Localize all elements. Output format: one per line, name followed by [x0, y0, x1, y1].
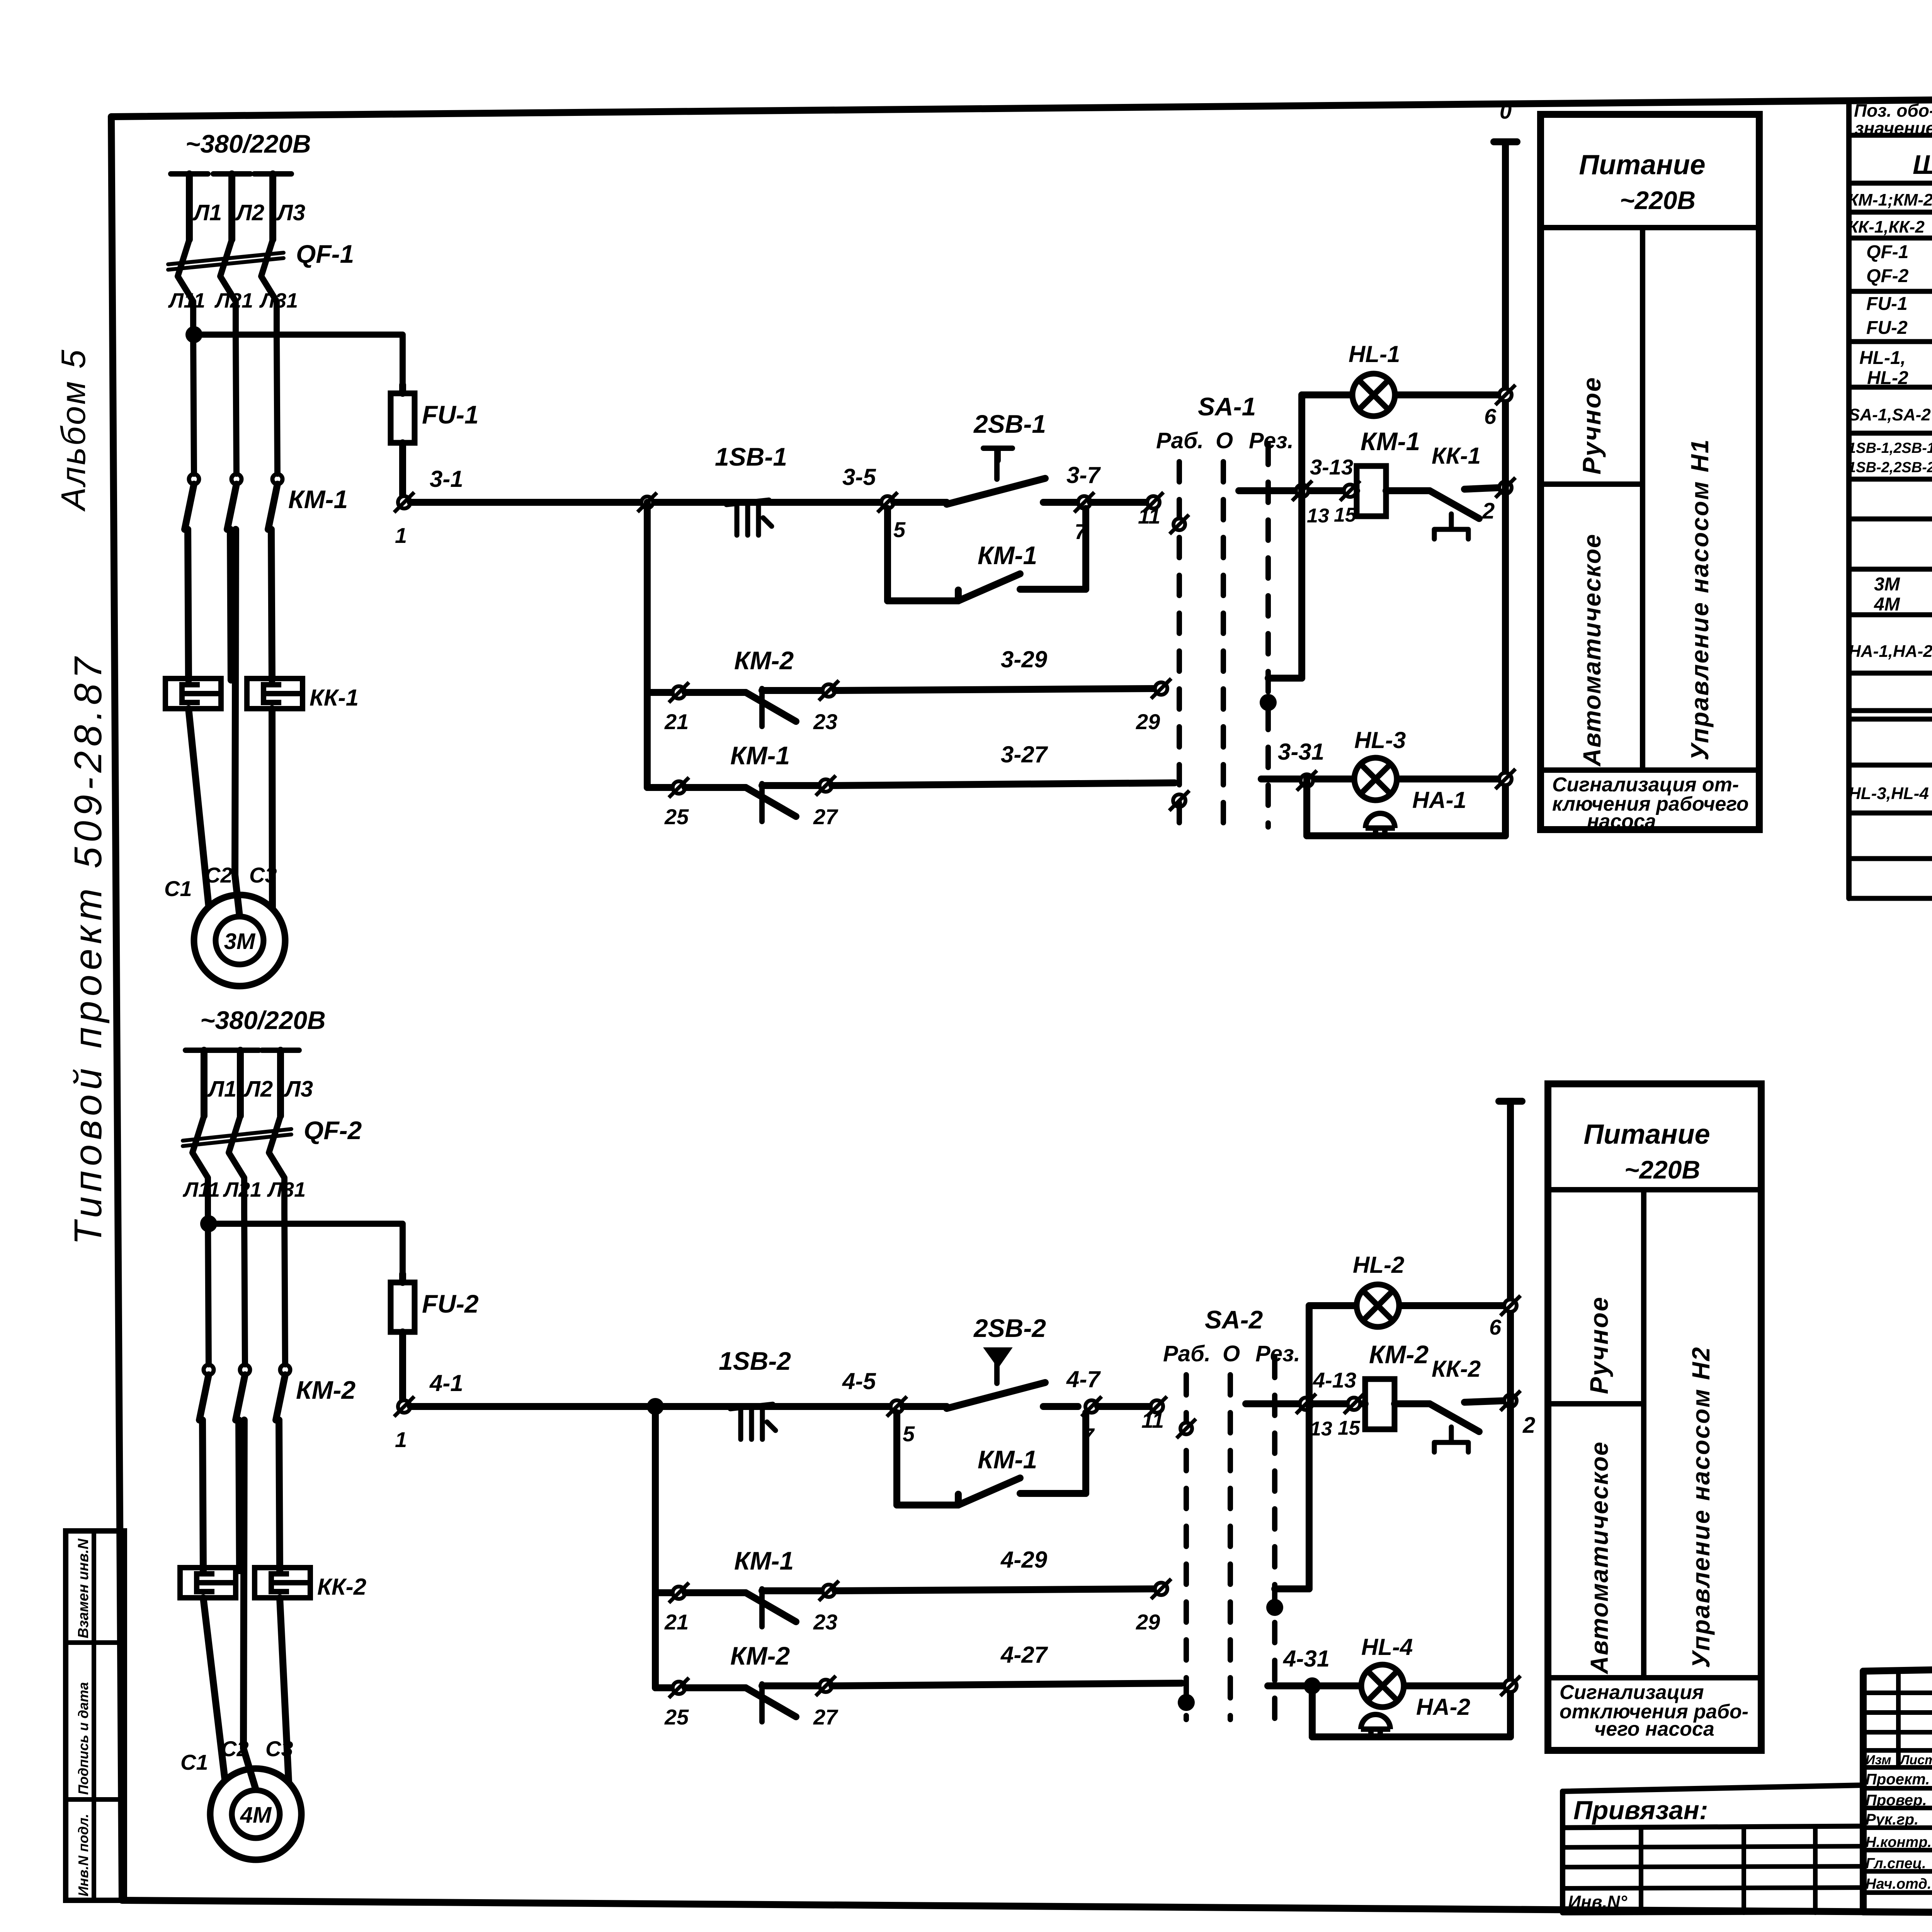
svg-text:FU-2: FU-2: [1866, 318, 1908, 338]
node 7 (circuit 1): [1074, 492, 1094, 512]
parts table grid: [1849, 93, 1932, 898]
svg-text:Проект.: Проект.: [1866, 1771, 1930, 1788]
phase labels L11 L21 L31 (circuit 1): [168, 289, 298, 312]
node 15 (circuit 1): [1340, 481, 1360, 501]
svg-text:насоса: насоса: [1587, 810, 1656, 833]
phase wires below QF-2: [208, 1213, 285, 1364]
box label signalizaciya (circuit 1): [1552, 774, 1749, 833]
svg-text:3-29: 3-29: [1001, 646, 1048, 672]
svg-text:Поз. обо-: Поз. обо-: [1854, 100, 1932, 121]
svg-text:21: 21: [664, 1610, 689, 1634]
contactor main contacts KM-2: [199, 1365, 290, 1571]
svg-text:Ручное: Ручное: [1585, 1296, 1613, 1394]
svg-text:Лист: Лист: [1899, 1753, 1932, 1767]
node 11 (circuit 2): [1147, 1396, 1167, 1417]
phase labels L1 L2 L3 (circuit 1): [192, 200, 305, 225]
svg-text:Привязан:: Привязан:: [1573, 1796, 1708, 1825]
supply bus N wire (circuit 1): [1494, 142, 1517, 836]
svg-text:НА-2: НА-2: [1416, 1694, 1470, 1720]
wire selector to coil nodes (circuit 1): [1239, 487, 1357, 494]
bell HA-1 branch wires: [1307, 779, 1505, 836]
svg-text:С3: С3: [265, 1736, 293, 1761]
svg-text:1: 1: [395, 1427, 407, 1452]
svg-text:Л21: Л21: [214, 289, 253, 312]
svg-text:SА-1: SА-1: [1198, 392, 1256, 421]
svg-text:13: 13: [1310, 1418, 1332, 1440]
junction dot on signal row (circuit 2): [1304, 1677, 1321, 1694]
start button 2SB-1: [894, 448, 1078, 504]
svg-text:С2: С2: [221, 1736, 249, 1761]
svg-text:Провер.: Провер.: [1866, 1792, 1927, 1809]
svg-text:Шкаф управления 3ШУ(ЯУ5117-03А: Шкаф управления 3ШУ(ЯУ5117-03А2П): [1913, 150, 1932, 180]
svg-text:2SB-1: 2SB-1: [973, 410, 1046, 438]
svg-text:4-7: 4-7: [1066, 1366, 1101, 1392]
svg-text:5: 5: [903, 1422, 915, 1446]
svg-text:1SB-1,2SB-1: 1SB-1,2SB-1: [1848, 440, 1932, 456]
svg-text:С1: С1: [164, 876, 192, 901]
svg-text:КМ-2: КМ-2: [1369, 1340, 1429, 1369]
bell HA-1: [1366, 813, 1395, 836]
svg-text:Л31: Л31: [259, 289, 298, 312]
svg-text:Ручное: Ручное: [1577, 376, 1606, 474]
control rail wire (circuit 2): [410, 1403, 943, 1410]
svg-text:4-27: 4-27: [1000, 1642, 1048, 1668]
control rail wire (circuit 1): [410, 499, 943, 506]
signature rows: [1866, 1770, 1932, 1893]
signal lamp HL-4: [1361, 1665, 1404, 1707]
svg-text:Л2: Л2: [235, 200, 264, 225]
svg-text:3М: 3М: [224, 929, 256, 954]
svg-text:2SB-2: 2SB-2: [973, 1314, 1046, 1342]
svg-text:4М: 4М: [1874, 594, 1900, 615]
svg-text:Взамен инв.N: Взамен инв.N: [75, 1538, 92, 1638]
svg-text:2: 2: [1482, 498, 1495, 524]
control tap junction on phase L11 (circuit 2): [200, 1215, 217, 1232]
signal lamp HL-1: [1352, 374, 1395, 416]
svg-text:4-29: 4-29: [1000, 1547, 1048, 1573]
svg-text:Л11: Л11: [168, 289, 205, 312]
rail junction (circuit 2): [647, 1398, 664, 1415]
revision header Izm List Ndokum Podp Data: [1866, 1751, 1932, 1768]
node 1 (circuit 2): [394, 1396, 414, 1417]
node 7 (circuit 2): [1082, 1396, 1102, 1417]
phase source terminals L1 L2 L3 (circuit 1): [171, 174, 291, 240]
table row HL-3 HL-4 signal armature red: [1849, 778, 1932, 805]
svg-text:Рез.: Рез.: [1255, 1341, 1300, 1366]
row end terminal on selector (circuit 1): [1169, 791, 1189, 811]
svg-text:КМ-1: КМ-1: [1361, 427, 1420, 456]
aux contact КМ-1 row (circuit 1): [647, 776, 1175, 821]
table row 1SB 2SB control button: [1848, 440, 1932, 476]
node 13 (circuit 1): [1292, 481, 1312, 501]
svg-text:О: О: [1216, 428, 1233, 453]
svg-text:Управление насосом Н2: Управление насосом Н2: [1687, 1346, 1715, 1668]
svg-text:6: 6: [1489, 1315, 1502, 1339]
node on bus signal row (circuit 2): [1500, 1676, 1520, 1696]
svg-text:КМ-1: КМ-1: [730, 741, 790, 770]
wire fuse to node 1 (circuit 2): [399, 1332, 406, 1400]
svg-text:11: 11: [1138, 504, 1160, 528]
svg-text:КМ-1;КМ-2: КМ-1;КМ-2: [1848, 190, 1932, 209]
node 2 (circuit 1): [1495, 478, 1515, 498]
table row SA-1 SA-2 universal switch: [1849, 386, 1932, 437]
motor terminal labels C1 C2 C3 (circuit 2): [180, 1736, 293, 1774]
selector position labels Rab O Rez: [1156, 428, 1294, 453]
svg-text:НL-2: НL-2: [1353, 1252, 1404, 1278]
svg-text:Л31: Л31: [267, 1178, 306, 1201]
aux contact КМ-1 row (circuit 2): [655, 1579, 1171, 1627]
svg-text:Л2: Л2: [243, 1077, 273, 1102]
svg-text:1SB-2,2SB-2: 1SB-2,2SB-2: [1848, 459, 1932, 476]
vertical branch wire to aux rows (circuit 2): [652, 1406, 659, 1688]
vertical branch wire to aux rows (circuit 1): [644, 502, 651, 787]
svg-text:3-13: 3-13: [1310, 455, 1353, 479]
wire selector to coil nodes (circuit 2): [1246, 1400, 1365, 1407]
svg-text:С3: С3: [249, 863, 277, 887]
svg-text:3-7: 3-7: [1066, 462, 1101, 488]
svg-text:НL-3: НL-3: [1354, 727, 1406, 753]
svg-text:Гл.спец.: Гл.спец.: [1866, 1855, 1926, 1872]
svg-text:1SB-1: 1SB-1: [715, 442, 787, 471]
wires heaters to motor (circuit 2): [203, 1420, 289, 1789]
svg-text:21: 21: [664, 709, 689, 734]
stop button 1SB-2: [730, 1404, 776, 1439]
node 6 (circuit 2): [1500, 1296, 1520, 1316]
selector position labels Rab O Rez: [1163, 1341, 1300, 1366]
rail junction (circuit 1): [638, 493, 657, 512]
svg-text:чего насоса: чего насоса: [1594, 1718, 1714, 1740]
svg-text:~220В: ~220В: [1624, 1155, 1700, 1184]
svg-text:15: 15: [1334, 504, 1357, 526]
svg-text:4-31: 4-31: [1283, 1646, 1330, 1672]
svg-text:FU-1: FU-1: [422, 400, 479, 429]
lamp branch wire to selector (circuit 2): [1275, 1306, 1309, 1589]
svg-text:25: 25: [664, 1705, 689, 1729]
function box dividers (circuit 1): [1541, 228, 1759, 770]
svg-text:Подпись и дата: Подпись и дата: [75, 1682, 91, 1795]
svg-text:4-5: 4-5: [842, 1368, 876, 1394]
phase labels L1 L2 L3 (circuit 2): [207, 1077, 313, 1102]
svg-text:КМ-1: КМ-1: [978, 1445, 1037, 1474]
table row FU-1 FU-2 fuse: [1866, 294, 1932, 338]
table row 3M 4M electric motor: [1874, 574, 1932, 615]
svg-text:23: 23: [813, 709, 837, 734]
circuit breaker QF-1: [168, 240, 284, 336]
svg-text:О: О: [1223, 1341, 1240, 1366]
svg-text:6: 6: [1484, 404, 1497, 429]
title block outline: [1863, 1655, 1932, 1917]
table row KM-1 KM-2 magnetic starter: [1848, 186, 1932, 213]
table row QF-1 QF-2 circuit breaker: [1866, 241, 1932, 294]
svg-text:29: 29: [1136, 709, 1160, 734]
revision grid: [1863, 1673, 1932, 1912]
table header Poz oboznachenie: [1854, 100, 1932, 138]
svg-text:Л1: Л1: [207, 1077, 236, 1102]
svg-text:13: 13: [1307, 505, 1329, 527]
self-hold contact КМ-1 (circuit 1): [888, 509, 1086, 601]
svg-text:КМ-2: КМ-2: [730, 1641, 790, 1670]
svg-text:КМ-1: КМ-1: [978, 541, 1037, 570]
function box outline (circuit 2): [1548, 1084, 1761, 1750]
svg-text:QF-1: QF-1: [296, 240, 354, 268]
svg-text:15: 15: [1338, 1417, 1361, 1439]
svg-text:~380/220В: ~380/220В: [200, 1006, 326, 1034]
phase source terminals L1 L2 L3 (circuit 2): [185, 1050, 299, 1116]
svg-text:Типовой проект 509-28.87: Типовой проект 509-28.87: [66, 653, 110, 1245]
svg-text:0: 0: [1500, 99, 1512, 123]
contactor coil KM-1: [1357, 466, 1386, 516]
contactor main contacts KM-1: [185, 474, 282, 680]
svg-text:КК-1: КК-1: [310, 685, 359, 711]
svg-text:НL-3,НL-4: НL-3,НL-4: [1849, 784, 1929, 803]
node 5 (circuit 2): [887, 1396, 907, 1417]
svg-text:Инв.N подл.: Инв.N подл.: [75, 1814, 91, 1896]
svg-text:~380/220В: ~380/220В: [185, 129, 311, 158]
svg-text:3М: 3М: [1874, 574, 1900, 595]
svg-text:Раб.: Раб.: [1156, 428, 1204, 453]
svg-text:НL-1,: НL-1,: [1859, 348, 1906, 368]
svg-text:Раб.: Раб.: [1163, 1341, 1211, 1366]
svg-text:КМ-1: КМ-1: [734, 1546, 794, 1575]
svg-text:3-31: 3-31: [1278, 739, 1324, 765]
svg-text:Рез.: Рез.: [1249, 428, 1294, 453]
bell HA-2: [1361, 1714, 1390, 1737]
svg-text:С1: С1: [180, 1750, 208, 1774]
contactor coil KM-2: [1365, 1379, 1395, 1429]
svg-text:4-1: 4-1: [429, 1370, 463, 1396]
svg-text:1: 1: [395, 523, 407, 548]
svg-text:23: 23: [813, 1610, 837, 1634]
svg-text:КК-2: КК-2: [1432, 1356, 1481, 1382]
svg-text:3-27: 3-27: [1001, 742, 1048, 767]
signal lamp HL-2 wires: [1309, 1302, 1510, 1309]
signal row wire 4-31 (circuit 2): [1268, 1682, 1510, 1689]
selector switch SA-2 dashed contact lines: [1186, 1357, 1275, 1719]
node 2 (circuit 2): [1500, 1391, 1520, 1411]
table row HL-1 HL-2 signal armature: [1859, 348, 1932, 388]
svg-text:1SB-2: 1SB-2: [719, 1347, 791, 1375]
svg-text:КМ-2: КМ-2: [734, 646, 794, 675]
function box header Pitanie ~220V (circuit 2): [1548, 1119, 1761, 1190]
start button 2SB-2: [903, 1349, 1078, 1408]
node 13 (circuit 2): [1296, 1394, 1316, 1414]
function box dividers (circuit 2): [1548, 1190, 1761, 1678]
thermal relay heaters KK-1: [165, 679, 303, 709]
svg-text:~220В: ~220В: [1620, 186, 1696, 214]
svg-text:Инв.N°: Инв.N°: [1568, 1892, 1628, 1912]
thermal NC contact KK-2: [1395, 1401, 1505, 1452]
svg-text:QF-2: QF-2: [1866, 266, 1909, 286]
wire tap to fuse FU-1: [194, 335, 403, 393]
fuse FU-1: [391, 393, 415, 443]
signal lamp HL-3: [1354, 758, 1397, 800]
wire node7 to node11 (circuit 2): [1098, 1403, 1151, 1410]
node 5 (circuit 1): [878, 492, 898, 512]
node 15 (circuit 2): [1344, 1394, 1364, 1414]
svg-text:Рук.гр.: Рук.гр.: [1866, 1811, 1918, 1828]
svg-text:25: 25: [664, 804, 689, 829]
svg-text:НL-2: НL-2: [1867, 368, 1908, 388]
wire fuse to node 1 (circuit 1): [399, 443, 406, 495]
svg-text:3-5: 3-5: [842, 464, 876, 490]
svg-text:4М: 4М: [240, 1803, 272, 1828]
phase wires below QF-1: [193, 336, 277, 474]
thermal relay heaters KK-2: [180, 1568, 310, 1598]
wire node7 to node11 (circuit 1): [1090, 499, 1151, 506]
svg-text:значение: значение: [1855, 118, 1932, 138]
svg-text:11: 11: [1141, 1408, 1164, 1432]
node 6 (circuit 1): [1495, 385, 1515, 405]
function box outline (circuit 1): [1541, 114, 1759, 830]
svg-text:С2: С2: [205, 863, 233, 887]
signal lamp HL-2: [1357, 1284, 1399, 1327]
svg-text:НА-1,НА-2: НА-1,НА-2: [1849, 642, 1932, 661]
svg-text:Изм: Изм: [1866, 1753, 1891, 1767]
node on bus signal row (circuit 1): [1495, 769, 1515, 789]
motor 4М: [210, 1769, 301, 1860]
wires heaters to motor (circuit 1): [189, 529, 272, 916]
svg-text:SА-1,SА-2: SА-1,SА-2: [1849, 405, 1931, 424]
svg-text:Л3: Л3: [284, 1077, 313, 1102]
aux contact КМ-2 row (circuit 2): [655, 1676, 1182, 1722]
svg-text:НL-4: НL-4: [1361, 1634, 1413, 1660]
svg-text:Л21: Л21: [223, 1178, 262, 1201]
junction dot on Rez line (circuit 2): [1266, 1599, 1283, 1616]
row end junction dot (circuit 2): [1178, 1694, 1195, 1711]
svg-text:НА-1: НА-1: [1412, 787, 1466, 813]
svg-text:НL-1: НL-1: [1349, 341, 1400, 367]
table row KK-1 KK-2 thermal relay: [1848, 213, 1932, 240]
svg-text:Л3: Л3: [276, 200, 305, 225]
svg-text:КМ-2: КМ-2: [296, 1376, 356, 1404]
motor terminal labels C1 C2 C3 (circuit 1): [164, 863, 277, 901]
node 1 (circuit 1): [394, 492, 414, 512]
svg-text:Н.контр.: Н.контр.: [1866, 1834, 1932, 1850]
svg-text:КК-1: КК-1: [1432, 443, 1481, 469]
title block left extension Privyazan box: [1563, 1785, 1863, 1913]
node 11 (circuit 1): [1143, 492, 1163, 512]
table row HA-1 HA-2 electric bell: [1849, 637, 1932, 664]
svg-text:Автоматическое: Автоматическое: [1578, 533, 1606, 767]
svg-text:Питание: Питание: [1583, 1119, 1710, 1150]
self-hold contact КМ-1 (circuit 2): [897, 1413, 1086, 1505]
fuse FU-2: [391, 1282, 415, 1332]
selector switch SA-1 dashed contact lines: [1179, 444, 1268, 827]
svg-text:КК-2: КК-2: [317, 1574, 366, 1600]
selector contact terminal on Rab line (circuit 1): [1170, 515, 1189, 534]
junction dot on Rez line (circuit 1): [1260, 694, 1277, 711]
lamp branch wire to selector (circuit 1): [1268, 395, 1302, 678]
stop button 1SB-1: [726, 500, 772, 535]
thermal NC contact KK-1: [1386, 488, 1500, 539]
svg-text:Л11: Л11: [182, 1178, 220, 1201]
svg-text:FU-1: FU-1: [1866, 294, 1908, 314]
bell HA-2 branch wires: [1312, 1686, 1510, 1737]
svg-text:2: 2: [1522, 1413, 1535, 1438]
svg-text:27: 27: [813, 804, 838, 829]
svg-text:SА-2: SА-2: [1205, 1305, 1263, 1334]
aux contact КМ-2 row (circuit 1): [647, 679, 1171, 726]
phase labels L11 L21 L31 (circuit 2): [182, 1178, 306, 1201]
svg-text:Альбом 5: Альбом 5: [54, 348, 92, 512]
svg-text:Управление насосом Н1: Управление насосом Н1: [1686, 439, 1714, 760]
svg-text:5: 5: [893, 517, 906, 542]
function box header Pitanie ~220V (circuit 1): [1541, 150, 1759, 228]
svg-text:КК-1,КК-2: КК-1,КК-2: [1848, 218, 1925, 236]
circuit breaker QF-2: [183, 1116, 291, 1213]
wire tap to fuse FU-2: [209, 1224, 403, 1282]
svg-text:Автоматическое: Автоматическое: [1585, 1441, 1613, 1675]
svg-text:Нач.отд.: Нач.отд.: [1866, 1876, 1931, 1892]
supply bus N wire (circuit 2): [1499, 1101, 1522, 1737]
motor 3М: [194, 895, 285, 986]
svg-text:КМ-1: КМ-1: [288, 485, 348, 514]
svg-text:QF-2: QF-2: [304, 1116, 362, 1145]
stamp boxes bottom-left: [66, 1531, 124, 1900]
svg-text:FU-2: FU-2: [422, 1289, 479, 1318]
control tap junction on phase L11 (circuit 1): [185, 326, 202, 343]
svg-text:Питание: Питание: [1579, 150, 1705, 180]
svg-text:27: 27: [813, 1705, 838, 1729]
svg-text:Л1: Л1: [192, 200, 222, 225]
svg-text:QF-1: QF-1: [1866, 242, 1908, 262]
svg-text:3-1: 3-1: [430, 466, 463, 492]
node on signal row (circuit 1): [1297, 770, 1317, 791]
selector contact terminal on Rab line (circuit 2): [1177, 1419, 1196, 1438]
box label signalizaciya (circuit 2): [1560, 1681, 1748, 1740]
svg-text:4-13: 4-13: [1313, 1368, 1356, 1392]
svg-text:29: 29: [1136, 1610, 1160, 1634]
signal lamp HL-1 wires: [1302, 391, 1505, 398]
signal row wire 3-31 (circuit 1): [1261, 776, 1505, 782]
